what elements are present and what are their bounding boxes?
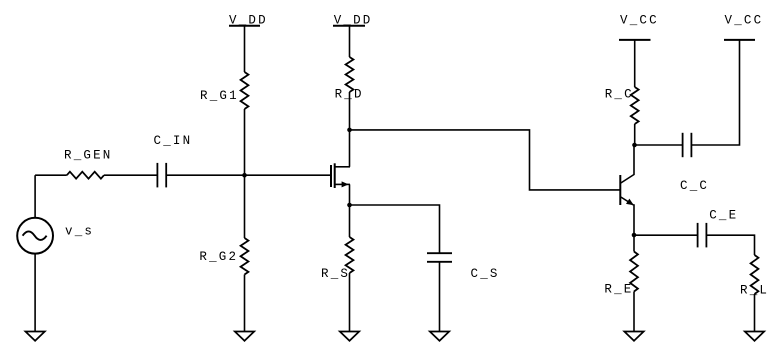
wire V_DD to R_G1: [244, 26, 246, 72]
wire C_IN to gate node: [166, 174, 244, 176]
transistor Q1 emitter arrow: [626, 199, 634, 206]
wire source node to R_S: [349, 205, 351, 237]
transistor Q1 base bar: [619, 175, 621, 205]
label V_DD right: [334, 13, 373, 27]
svg-text:C_IN: C_IN: [154, 134, 193, 148]
wire collector node to C_C: [635, 144, 683, 146]
svg-text:C_E: C_E: [709, 209, 738, 223]
label R_D: [335, 88, 364, 102]
wire R_D to drain node: [349, 92, 351, 167]
svg-text:V_DD: V_DD: [334, 13, 373, 27]
label R_G1: [200, 89, 239, 103]
node source: [347, 203, 352, 208]
node gate junction: [242, 173, 247, 178]
label V_CC left: [620, 14, 659, 28]
label R_E: [604, 283, 633, 297]
capacitor C_C: [683, 133, 692, 157]
wire R_GEN to C_IN: [104, 174, 158, 176]
wire v_s top: [34, 175, 36, 218]
capacitor C_E: [698, 223, 707, 248]
capacitor C_S: [427, 253, 452, 262]
wire C_E to R_L: [706, 235, 754, 255]
wire R_S to ground: [349, 273, 351, 332]
svg-text:C_C: C_C: [680, 179, 709, 193]
resistor R_G2: [241, 238, 249, 275]
wire M1 source down: [349, 184, 351, 205]
wire V_CC to R_C: [634, 40, 636, 87]
label C_C: [680, 179, 709, 193]
wire C_S to ground: [439, 262, 441, 332]
svg-text:V_DD: V_DD: [229, 13, 268, 27]
ground for R_L: [745, 332, 764, 341]
node collector: [632, 143, 637, 148]
wire gate node to MOSFET gate: [245, 174, 331, 176]
wire drain node to BJT base: [350, 130, 620, 190]
svg-text:R_C: R_C: [605, 88, 634, 102]
power symbol V_DD left: [229, 25, 260, 27]
svg-text:R_E: R_E: [604, 283, 633, 297]
svg-text:R_S: R_S: [321, 267, 350, 281]
power symbol V_CC right: [724, 39, 755, 41]
svg-text:R_G2: R_G2: [199, 250, 238, 264]
svg-text:v_s: v_s: [65, 224, 94, 238]
resistor R_G1: [241, 72, 249, 109]
resistor R_S: [346, 237, 354, 273]
transistor M1 source lead: [335, 183, 350, 185]
label V_DD left: [229, 13, 268, 27]
node emitter: [632, 233, 637, 238]
label R_C: [605, 88, 634, 102]
svg-text:R_G1: R_G1: [200, 89, 239, 103]
wire gate node to R_G2: [244, 175, 246, 238]
transistor Q1 emitter lead: [621, 197, 634, 235]
capacitor C_IN: [157, 163, 166, 188]
wire v_s bottom: [34, 254, 36, 332]
label R_G2: [199, 250, 238, 264]
resistor R_L: [751, 255, 759, 294]
resistor R_GEN: [67, 172, 104, 179]
wire source to R_GEN: [35, 174, 67, 176]
svg-text:V_CC: V_CC: [725, 14, 764, 28]
resistor R_D: [346, 57, 354, 92]
ground for R_S: [340, 332, 359, 341]
power symbol V_CC left: [619, 39, 651, 41]
wire R_G1 to gate node: [244, 109, 246, 175]
label R_S: [321, 267, 350, 281]
transistor Q1 collector lead: [621, 145, 634, 183]
label V_CC right: [725, 14, 764, 28]
wire emitter node to C_E: [634, 234, 698, 236]
wire R_G2 to ground: [244, 275, 246, 332]
transistor M1 NMOS gate bar: [330, 165, 332, 187]
resistor R_C: [631, 87, 639, 124]
wire R_C to collector node: [634, 124, 636, 145]
svg-text:R_GEN: R_GEN: [64, 149, 113, 163]
power symbol V_DD right: [333, 25, 365, 27]
ground for R_G2: [235, 332, 254, 341]
label C_S: [471, 267, 500, 281]
wire emitter node to R_E: [633, 235, 635, 252]
transistor M1 source arrow: [342, 181, 349, 187]
transistor M1 drain lead: [335, 166, 350, 168]
svg-text:C_S: C_S: [471, 267, 500, 281]
ground for R_E: [624, 332, 643, 341]
wire R_E to ground: [633, 292, 635, 332]
ground for v_s: [25, 332, 44, 341]
transistor M1 channel bar: [334, 163, 336, 188]
label R_GEN: [64, 149, 113, 163]
label C_E: [709, 209, 738, 223]
wire C_C to V_CC right: [692, 40, 740, 145]
wire R_L to ground: [754, 294, 756, 332]
ground for C_S: [430, 332, 449, 341]
voltage source v_s: [17, 218, 53, 254]
wire source node to C_S: [350, 205, 440, 253]
resistor R_E: [630, 252, 638, 292]
label C_IN: [154, 134, 193, 148]
label v_s: [65, 224, 94, 238]
node drain: [347, 128, 352, 133]
wire V_DD to R_D: [349, 26, 351, 57]
label R_L: [740, 284, 769, 298]
svg-text:V_CC: V_CC: [620, 14, 659, 28]
